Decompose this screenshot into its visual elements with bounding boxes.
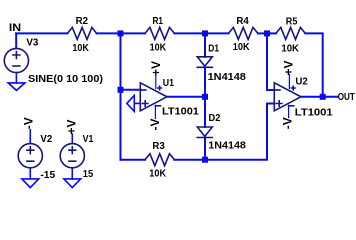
op-amp U1 — [140, 83, 167, 111]
wire U1 output — [167, 96, 205, 98]
svg-text:-V: -V — [22, 117, 36, 129]
svg-text:SINE(0 10 100): SINE(0 10 100) — [28, 73, 103, 85]
svg-text:R5: R5 — [286, 16, 298, 27]
svg-text:-V: -V — [281, 117, 295, 129]
svg-text:D2: D2 — [209, 113, 221, 124]
svg-text:LT1001: LT1001 — [162, 106, 199, 118]
svg-text:-15: -15 — [40, 170, 55, 181]
wire V3 top stub — [15, 33, 17, 48]
svg-text:1N4148: 1N4148 — [208, 71, 246, 83]
svg-text:10K: 10K — [281, 43, 299, 54]
wire R2 to node A — [97, 32, 121, 34]
wire node A to R1 — [121, 32, 146, 34]
svg-text:-V: -V — [148, 119, 162, 131]
resistor R1 — [145, 27, 174, 39]
svg-text:+V: +V — [64, 119, 78, 134]
voltage source V1 — [60, 144, 84, 168]
op-amp U1 V+ power pin — [155, 75, 157, 89]
ground at U1 plus input — [127, 95, 135, 111]
wire R1 to node B — [174, 32, 205, 34]
svg-text:IN: IN — [9, 22, 21, 34]
wire D1 to U1 output node — [204, 67, 206, 97]
ground V2 — [22, 179, 39, 188]
junction node B — [202, 30, 208, 36]
svg-text:LT1001: LT1001 — [295, 106, 333, 118]
wire V2 top stub — [29, 130, 31, 144]
svg-text:15: 15 — [83, 169, 94, 180]
wire node B to R4 — [205, 32, 229, 34]
wire bottom node to U2 plus input — [205, 104, 274, 160]
resistor R2 — [67, 27, 96, 39]
svg-text:V1: V1 — [83, 134, 94, 145]
wire node A vertical down to R3 row — [120, 33, 122, 159]
svg-text:R4: R4 — [236, 16, 249, 27]
wire node C down to U2 minus input — [267, 33, 274, 90]
voltage source V3 — [4, 48, 28, 72]
wire U1 output node down to D2 — [204, 97, 206, 127]
wire V2 bottom stub — [29, 168, 31, 179]
svg-text:10K: 10K — [72, 43, 89, 54]
wire D2 to bottom node — [204, 138, 206, 160]
op-amp U1 V- power pin — [154, 105, 156, 118]
svg-text:R3: R3 — [152, 141, 165, 152]
wire node C to R5 — [267, 32, 276, 34]
junction node C — [264, 30, 270, 36]
ground V3 — [8, 83, 25, 91]
svg-text:OUT: OUT — [338, 92, 355, 103]
junction bottom node — [202, 157, 208, 163]
diode D2 — [197, 127, 212, 138]
op-amp U2 V- power pin — [288, 105, 290, 117]
wire R3 to bottom node — [174, 159, 205, 161]
wire bottom row left to R3 — [121, 159, 146, 161]
svg-text:10K: 10K — [233, 42, 250, 53]
wire U2 output to OUT — [301, 96, 338, 98]
resistor R4 — [229, 27, 258, 39]
resistor R5 — [276, 27, 305, 39]
svg-text:D1: D1 — [208, 43, 219, 54]
voltage source V2 — [18, 144, 42, 168]
wire R4 to node C — [258, 32, 267, 34]
wire V1 bottom stub — [71, 168, 73, 179]
ground V1 — [64, 179, 81, 188]
resistor R3 — [145, 154, 174, 166]
wire node A2 to U1 inverting input — [121, 89, 141, 91]
op-amp U2 V+ power pin — [288, 75, 290, 89]
svg-text:+V: +V — [149, 61, 163, 76]
wire R5 to right corner, down to output node — [305, 33, 322, 96]
svg-text:U1: U1 — [163, 78, 175, 89]
wire ground to U1 plus input — [134, 102, 140, 104]
svg-text:+V: +V — [282, 60, 296, 75]
diode D1 — [197, 57, 212, 68]
svg-text:R1: R1 — [153, 16, 164, 27]
op-amp U2 — [274, 83, 301, 111]
wire V1 top stub — [71, 134, 73, 144]
svg-text:R2: R2 — [76, 16, 89, 27]
junction output node — [320, 94, 326, 100]
wire V3 bottom stub — [15, 73, 17, 83]
svg-text:10K: 10K — [150, 43, 167, 54]
svg-text:V2: V2 — [40, 134, 52, 145]
junction U1 output node — [202, 94, 208, 100]
svg-text:10K: 10K — [149, 168, 166, 179]
svg-text:U2: U2 — [295, 76, 308, 87]
junction node A2 — [118, 87, 124, 93]
svg-text:V3: V3 — [26, 38, 38, 49]
wire node B down to D1 — [204, 33, 206, 56]
junction node A — [118, 30, 124, 36]
wire IN top row to R2 — [16, 32, 67, 34]
svg-text:1N4148: 1N4148 — [208, 140, 246, 152]
